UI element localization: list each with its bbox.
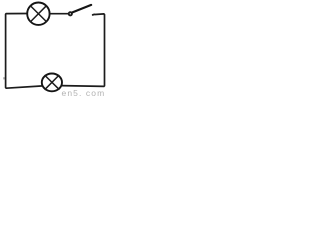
wire left loop: top-left, left vertical, bottom-left: [6, 14, 43, 89]
switch S1 pivot: [69, 12, 72, 15]
switch S1 lever: [72, 5, 91, 12]
switch S1 fixed contact: [93, 13, 95, 16]
wire right loop: switch stub, right vertical, bottom-right: [61, 14, 104, 87]
lamp L2 cross: [45, 75, 59, 89]
lamp L1 circle: [27, 3, 49, 25]
wire lamp L1 to switch: [50, 13, 69, 15]
lamp L2 circle: [42, 74, 62, 92]
scan speck on left wire: [3, 77, 5, 79]
lamp L1 cross: [31, 6, 47, 22]
svg-text:en5. com: en5. com: [62, 88, 106, 98]
